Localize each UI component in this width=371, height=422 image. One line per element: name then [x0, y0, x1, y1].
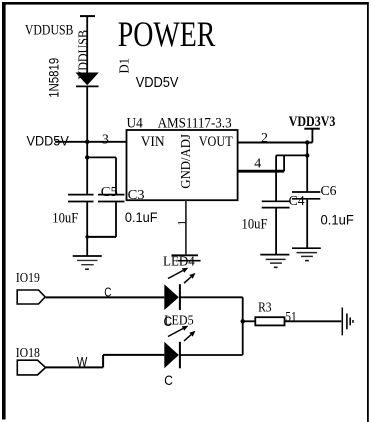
svg-text:1: 1	[177, 220, 189, 226]
power port VDDUSB bar	[80, 15, 95, 17]
svg-text:VDDUSB: VDDUSB	[76, 30, 91, 80]
svg-text:VDD5V: VDD5V	[27, 132, 70, 148]
port IO19	[17, 290, 45, 304]
LED4 triangle	[164, 284, 179, 310]
svg-text:C6: C6	[321, 184, 337, 199]
wire C3 top	[115, 157, 117, 194]
wire C3 bottom	[115, 202, 117, 237]
svg-text:VDDUSB: VDDUSB	[25, 23, 74, 39]
LED5 triangle	[164, 342, 179, 369]
LED4 arrow 1	[168, 268, 188, 279]
wire branch to C3	[87, 156, 116, 158]
wire up to VDD3V3 bar	[311, 129, 313, 143]
ground (C4)	[260, 255, 289, 268]
wire VDDUSB bar to diode anode	[86, 16, 88, 73]
diode D1 triangle	[76, 73, 99, 86]
wire to R3	[243, 320, 256, 322]
svg-text:VOUT: VOUT	[199, 134, 233, 150]
svg-text:R3: R3	[258, 300, 272, 315]
diode D1 cathode bar	[76, 85, 99, 87]
wire pin4 vertical right	[283, 155, 285, 171]
svg-text:10uF: 10uF	[52, 211, 78, 227]
svg-text:2: 2	[261, 131, 268, 146]
wire VDD5V to U4 VIN pin 3	[55, 141, 127, 143]
capacitor C4 plates	[262, 201, 290, 207]
wire R3 to ground	[285, 320, 342, 322]
svg-text:10uF: 10uF	[242, 217, 268, 233]
svg-text:0.1uF: 0.1uF	[125, 209, 158, 225]
svg-text:D1: D1	[117, 58, 132, 74]
wire step to LED5 anode	[103, 354, 164, 356]
wire pin4 vertical left	[275, 155, 277, 171]
junction pin4 step	[305, 153, 309, 157]
wire IO18 horizontal	[46, 366, 104, 368]
wire down to C6	[306, 143, 308, 192]
svg-text:LED5: LED5	[164, 313, 193, 328]
svg-text:IO18: IO18	[16, 345, 40, 360]
junction on pin2 wire	[305, 140, 309, 144]
svg-text:VIN: VIN	[141, 134, 165, 150]
svg-text:C4: C4	[289, 194, 305, 209]
svg-text:IO19: IO19	[16, 270, 40, 285]
capacitor C3 plates	[98, 195, 124, 202]
junction node C3 branch	[85, 155, 89, 159]
svg-text:U4: U4	[127, 116, 144, 132]
svg-text:1N5819: 1N5819	[47, 58, 62, 98]
wire C6 to ground	[306, 200, 308, 249]
wire pin4 step horizontal	[276, 154, 307, 156]
capacitor C6 plates	[292, 192, 320, 199]
ground bar (pin 1)	[172, 254, 199, 256]
svg-text:C: C	[104, 285, 111, 300]
power port VDD3V3 bar	[304, 128, 320, 130]
junction node VDD5V/diode	[85, 140, 89, 144]
wire IO19 to LED4 anode	[46, 296, 165, 298]
wire LED4-LED5 vertical	[242, 297, 244, 355]
junction loop bottom	[85, 235, 89, 239]
LED5 cathode bar	[179, 342, 181, 369]
pin 1 GND/ADJ stub	[185, 200, 187, 254]
ground bar 2 (pin 1)	[177, 260, 200, 262]
svg-text:GND/ADJ: GND/ADJ	[179, 134, 194, 189]
svg-text:C5: C5	[101, 185, 118, 200]
ground (rotated, right)	[342, 308, 353, 336]
svg-text:LED4: LED4	[163, 255, 195, 270]
wire down to C4	[275, 171, 277, 200]
wire C5 bottom to ground	[86, 202, 88, 256]
wire IO18 step vertical	[102, 355, 104, 368]
LED5 arrow 1	[168, 326, 188, 337]
svg-text:VDD5V: VDD5V	[136, 75, 179, 91]
pin 4 wire	[238, 170, 285, 173]
svg-text:AMS1117-3.3: AMS1117-3.3	[158, 116, 232, 132]
svg-text:3: 3	[102, 132, 109, 147]
svg-text:W: W	[77, 353, 88, 369]
LED5 arrow 2	[184, 331, 196, 341]
pin 2 wire VOUT	[238, 141, 313, 143]
svg-text:POWER: POWER	[118, 14, 216, 54]
wire down to C5	[86, 142, 88, 194]
svg-text:C: C	[164, 372, 173, 388]
svg-text:0.1uF: 0.1uF	[321, 212, 354, 228]
ground (C5/C3)	[73, 256, 102, 269]
svg-text:4: 4	[254, 157, 261, 172]
resistor R3 body	[255, 317, 284, 325]
junction R3 branch	[241, 319, 245, 323]
svg-text:VDD3V3: VDD3V3	[289, 114, 336, 130]
port IO18	[17, 360, 45, 375]
wire diode cathode to VDD5V rail	[86, 86, 88, 141]
capacitor C5 plates	[68, 195, 94, 202]
wire loop bottom	[86, 236, 116, 238]
op-amp/regulator U4 box	[127, 130, 238, 200]
wire LED5 cathode right	[180, 354, 243, 356]
ground (C6)	[292, 248, 321, 260]
LED4 arrow 2	[184, 273, 196, 283]
svg-text:51: 51	[285, 310, 296, 325]
LED4 cathode bar	[179, 284, 181, 310]
wire LED4 cathode right	[180, 296, 243, 298]
wire C4 to ground	[275, 208, 277, 254]
